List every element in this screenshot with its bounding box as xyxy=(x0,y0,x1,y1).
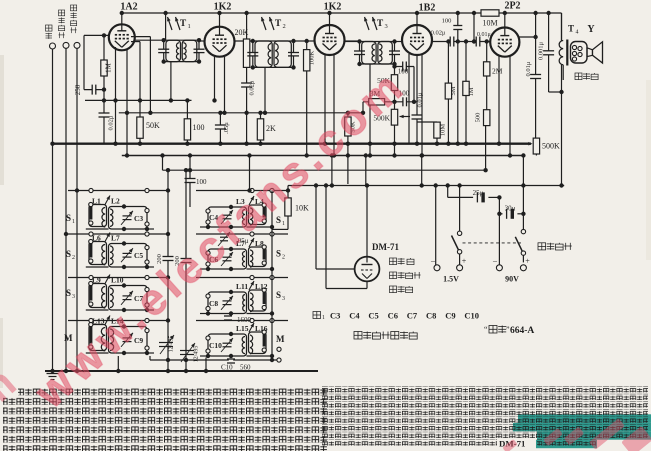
svg-text:C8: C8 xyxy=(209,299,218,308)
svg-text:C8: C8 xyxy=(426,311,436,321)
svg-text:50K: 50K xyxy=(146,121,160,130)
svg-text:2K: 2K xyxy=(266,124,276,133)
svg-text:L11: L11 xyxy=(236,282,248,291)
svg-text:2: 2 xyxy=(283,23,286,30)
svg-text:10M: 10M xyxy=(440,124,447,137)
svg-text:0.02μ: 0.02μ xyxy=(431,30,446,37)
svg-text:90V: 90V xyxy=(505,275,519,284)
svg-text:L8: L8 xyxy=(255,239,264,248)
svg-text:4: 4 xyxy=(576,30,579,36)
svg-text:S: S xyxy=(66,249,71,259)
svg-text:L15: L15 xyxy=(236,324,249,333)
svg-text:1M: 1M xyxy=(105,62,113,73)
svg-text:C10: C10 xyxy=(221,364,233,372)
svg-text:2: 2 xyxy=(282,255,285,261)
svg-text:L1: L1 xyxy=(92,197,101,206)
svg-text:10K: 10K xyxy=(295,204,309,213)
svg-text:C4: C4 xyxy=(349,311,360,321)
svg-text:0.02μ: 0.02μ xyxy=(249,80,256,95)
svg-text:Y: Y xyxy=(587,24,595,35)
svg-text:5M: 5M xyxy=(450,86,457,95)
svg-text:C7: C7 xyxy=(407,311,418,321)
svg-text:0.02μ: 0.02μ xyxy=(108,115,115,130)
svg-text:S: S xyxy=(276,290,281,300)
svg-text:L7: L7 xyxy=(111,234,120,243)
svg-text:+: + xyxy=(525,257,530,266)
svg-text:30μ: 30μ xyxy=(505,205,516,213)
svg-text:L10: L10 xyxy=(111,276,124,285)
svg-text:25μ: 25μ xyxy=(473,189,484,197)
svg-text:C3: C3 xyxy=(330,311,340,321)
svg-text:2: 2 xyxy=(72,255,75,261)
svg-text:100K: 100K xyxy=(309,50,316,65)
svg-text:20K: 20K xyxy=(235,28,249,37)
svg-text:100: 100 xyxy=(442,18,452,25)
svg-text:1K2: 1K2 xyxy=(324,2,342,13)
svg-text:C10: C10 xyxy=(209,341,222,350)
svg-text:S: S xyxy=(66,213,71,223)
svg-text:100: 100 xyxy=(196,178,207,186)
svg-text:100: 100 xyxy=(398,68,409,76)
svg-text:C9: C9 xyxy=(445,311,455,321)
svg-text:L12: L12 xyxy=(255,282,268,291)
svg-text:C10: C10 xyxy=(464,311,479,321)
svg-text:0.01μ: 0.01μ xyxy=(477,32,491,38)
svg-text:L16: L16 xyxy=(255,324,268,333)
svg-text:2M: 2M xyxy=(492,67,503,76)
svg-text:C5: C5 xyxy=(134,251,143,260)
svg-text:250: 250 xyxy=(74,84,82,95)
svg-text:2P2: 2P2 xyxy=(504,1,520,12)
svg-text:T: T xyxy=(275,19,282,29)
svg-text:0.01μ: 0.01μ xyxy=(525,61,532,76)
svg-text:.05μ: .05μ xyxy=(223,122,230,134)
svg-text:100: 100 xyxy=(193,123,205,132)
svg-text:1M: 1M xyxy=(468,87,475,96)
svg-text:“: “ xyxy=(484,325,488,334)
svg-text:1: 1 xyxy=(72,219,75,225)
svg-text:T: T xyxy=(377,19,384,29)
svg-text:T: T xyxy=(180,19,187,29)
svg-text:L6: L6 xyxy=(92,234,101,243)
svg-text:L9: L9 xyxy=(92,276,101,285)
svg-text:664-A: 664-A xyxy=(510,326,534,336)
svg-text:S: S xyxy=(276,249,281,259)
svg-text:C5: C5 xyxy=(368,311,378,321)
svg-text:0.001μ: 0.001μ xyxy=(538,41,545,60)
svg-text:3: 3 xyxy=(385,23,388,30)
svg-text:1K2: 1K2 xyxy=(214,2,232,13)
svg-text:1.5V: 1.5V xyxy=(443,275,459,284)
svg-text:500: 500 xyxy=(475,113,482,123)
svg-text:T: T xyxy=(568,24,574,34)
svg-text:10M: 10M xyxy=(482,19,497,28)
svg-text:12/495: 12/495 xyxy=(169,336,175,353)
svg-text:560: 560 xyxy=(240,364,251,372)
svg-text:+: + xyxy=(462,257,467,266)
svg-text:1B2: 1B2 xyxy=(419,3,436,14)
svg-text:1: 1 xyxy=(322,315,325,321)
svg-text:3: 3 xyxy=(282,296,285,302)
svg-text:DM-71: DM-71 xyxy=(372,242,399,252)
svg-text:C6: C6 xyxy=(388,311,398,321)
svg-text:C3: C3 xyxy=(134,214,143,223)
svg-text:M: M xyxy=(276,334,285,344)
svg-text:1: 1 xyxy=(282,221,285,227)
svg-text:1600: 1600 xyxy=(237,316,252,324)
svg-text:1A2: 1A2 xyxy=(120,2,137,13)
svg-text:12/495: 12/495 xyxy=(194,346,200,363)
svg-text:L2: L2 xyxy=(111,197,120,206)
svg-text:1: 1 xyxy=(188,23,191,30)
svg-text:3: 3 xyxy=(72,294,75,300)
svg-text:500K: 500K xyxy=(542,142,560,151)
svg-text:S: S xyxy=(66,288,71,298)
